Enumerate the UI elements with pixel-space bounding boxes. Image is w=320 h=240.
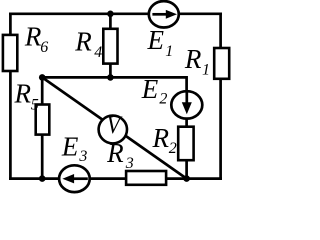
- svg-text:2: 2: [159, 91, 167, 108]
- resistor R1: [214, 48, 229, 79]
- svg-text:E: E: [141, 74, 159, 104]
- wire diagonal: [42, 77, 186, 178]
- wire middle horizontal: [42, 76, 186, 79]
- svg-text:2: 2: [169, 140, 177, 157]
- wire E2 R2 branch: [185, 77, 188, 178]
- svg-text:R: R: [106, 138, 124, 168]
- source E3: [59, 165, 90, 192]
- svg-text:3: 3: [125, 155, 134, 172]
- wire right: [219, 14, 222, 179]
- svg-text:R: R: [184, 44, 202, 74]
- wire left: [9, 14, 12, 179]
- wire R4 branch: [109, 14, 112, 78]
- svg-text:R: R: [14, 78, 32, 108]
- junction dot bottom right: [183, 175, 190, 182]
- resistor R3: [126, 171, 166, 185]
- svg-text:1: 1: [165, 43, 173, 60]
- svg-text:1: 1: [202, 61, 210, 78]
- svg-text:3: 3: [78, 148, 87, 165]
- svg-text:R: R: [74, 26, 92, 56]
- wire bottom: [10, 177, 220, 180]
- junction node B: [107, 74, 114, 81]
- resistor R4: [103, 29, 117, 64]
- svg-text:E: E: [147, 25, 165, 55]
- resistor R6: [3, 35, 17, 71]
- svg-text:4: 4: [94, 44, 102, 61]
- source E2: [171, 91, 202, 118]
- svg-text:E: E: [61, 132, 79, 162]
- wire top: [10, 12, 220, 15]
- junction node A: [39, 74, 46, 81]
- wire R5 branch: [41, 77, 44, 178]
- svg-text:R: R: [152, 123, 170, 153]
- resistor R2: [178, 127, 193, 161]
- junction dot bottom left: [39, 175, 46, 182]
- svg-text:6: 6: [40, 39, 48, 56]
- voltmeter V: [99, 110, 127, 143]
- svg-text:R: R: [24, 22, 42, 52]
- svg-text:5: 5: [31, 97, 39, 114]
- resistor R5: [36, 105, 50, 135]
- source E1: [149, 1, 179, 27]
- junction dot top: [107, 11, 114, 18]
